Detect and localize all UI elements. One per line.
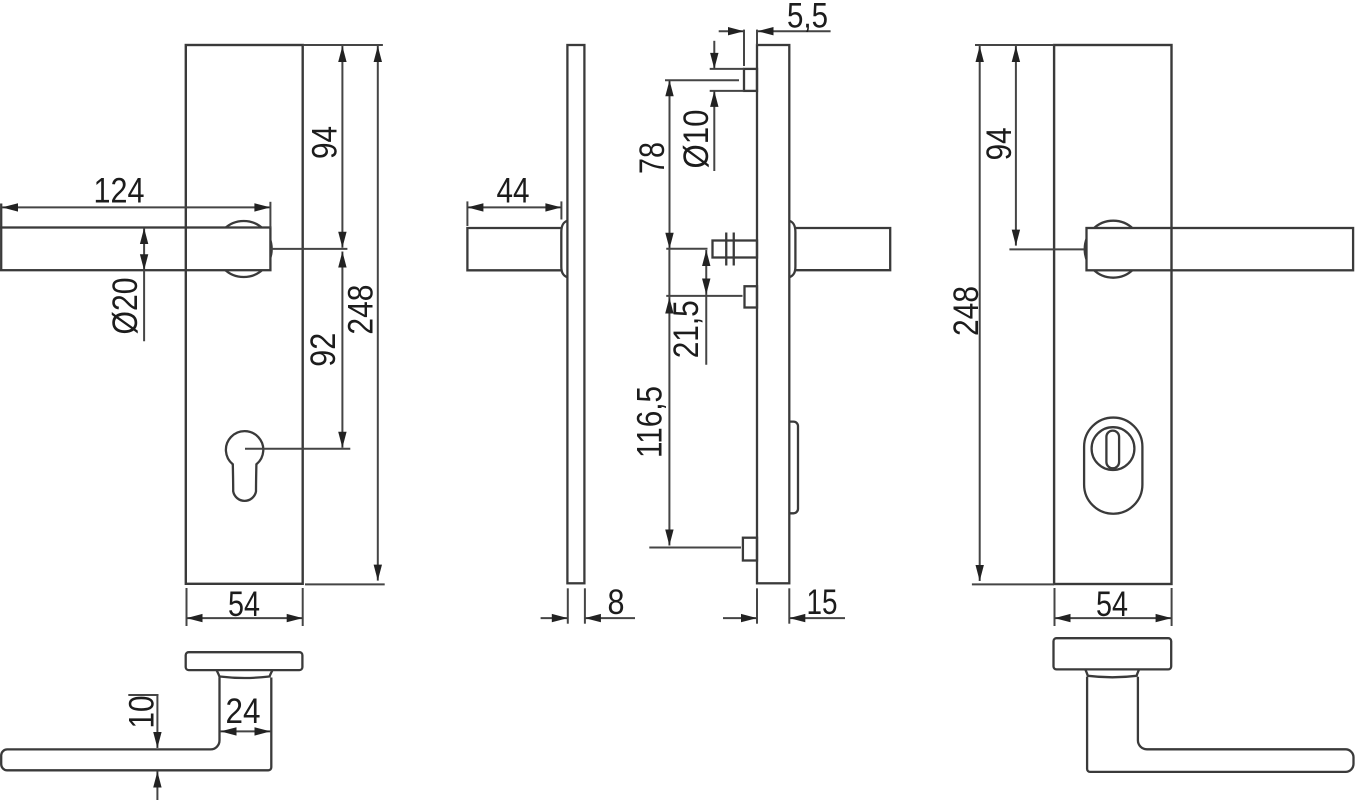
dimension 94 line (view4) [1015, 46, 1017, 246]
centerline of keyhole [245, 448, 350, 450]
long plate outline [186, 45, 303, 584]
lever neck side view [467, 228, 561, 270]
lower screw boss tick [649, 547, 741, 549]
svg-text:8: 8 [608, 583, 625, 622]
leader line under Ø20 [143, 270, 145, 341]
cylinder core circle [1092, 427, 1135, 470]
44 extension lines [466, 201, 468, 226]
54 extension lines (view1 bottom) [186, 588, 188, 626]
dimension 78 line [669, 80, 671, 249]
svg-text:21,5: 21,5 [667, 300, 706, 358]
svg-text:54: 54 [1096, 585, 1128, 624]
top extension line [303, 44, 383, 46]
svg-text:78: 78 [633, 142, 672, 174]
svg-text:248: 248 [341, 285, 380, 335]
svg-text:Ø20: Ø20 [106, 278, 145, 335]
5,5 extension lines [743, 30, 745, 66]
svg-text:44: 44 [497, 172, 530, 211]
dimension 5,5 arrows [719, 30, 744, 32]
long plate outline (inside) [1054, 45, 1171, 584]
dimension 248 line [377, 46, 379, 581]
centerline of lever (view4) [1009, 248, 1084, 250]
svg-text:248: 248 [947, 286, 986, 336]
svg-text:94: 94 [980, 127, 1019, 160]
dimension 8 arrows [541, 617, 568, 619]
dimension 10 upper arrow [156, 695, 158, 748]
dimension 94 line [341, 46, 343, 248]
neck collar bottom line [220, 677, 270, 679]
dimension 24 arrows [221, 730, 271, 732]
dimension Ø20 arrows [143, 228, 145, 270]
lever neck side view (right) [795, 228, 890, 270]
svg-text:94: 94 [306, 126, 345, 159]
10 dim shelf line [128, 694, 158, 696]
15 extension lines [756, 588, 758, 623]
svg-text:124: 124 [94, 172, 145, 211]
dimension 116,5 line [668, 249, 670, 546]
lever handle bar (front view), covers circle middle [0, 228, 270, 271]
bottom extension line (view4) [972, 583, 1054, 585]
screw axis tick [665, 79, 739, 81]
neck collar bottom line (right view) [1088, 676, 1136, 678]
dimension 54 line (view1) [187, 617, 303, 619]
spindle axis tick [666, 248, 707, 250]
upper fixing screw boss [745, 286, 758, 307]
dimension 248 line (view4) [979, 46, 981, 581]
oval security cylinder cover [1084, 418, 1142, 514]
oval cylinder cover, side view [789, 422, 798, 514]
security plate (15mm) side view [757, 45, 789, 583]
neck collar taper left (right view) [1085, 670, 1088, 677]
lever handle bar (front view, inside) [1087, 228, 1354, 270]
lever bar left end line [0, 204, 2, 271]
dimension 10 lower arrow [156, 772, 158, 800]
lower fixing screw boss [743, 538, 757, 561]
rose slab, bottom view [186, 652, 303, 670]
cylinder key slot [1106, 431, 1119, 469]
svg-text:116,5: 116,5 [631, 386, 670, 458]
bottom extension line [305, 583, 385, 585]
rose circle (lever bearing) [216, 221, 272, 277]
neck collar taper right (right view) [1136, 670, 1139, 677]
dimension Ø10 arrows [713, 41, 715, 69]
dimension 44 line [467, 206, 561, 208]
dimension 15 arrows [723, 617, 757, 619]
svg-text:24: 24 [226, 692, 261, 731]
54 extension lines (view4) [1054, 588, 1056, 626]
top extension line (view4) [975, 44, 1054, 46]
dimension 21,5 arrows [705, 250, 707, 365]
svg-text:92: 92 [304, 333, 343, 367]
svg-text:10: 10 [123, 696, 162, 729]
lever L-profile outline (bottom view, left) [1, 678, 271, 771]
top fixing screw, side [744, 69, 757, 91]
svg-text:15: 15 [807, 583, 838, 622]
spindle, side view [713, 241, 758, 258]
neck collar taper right [269, 670, 272, 677]
screw bottom edge extended [710, 90, 744, 92]
dimension 124 line [2, 206, 270, 208]
neck collar taper left [217, 670, 220, 677]
euro profile cylinder keyhole [226, 431, 263, 501]
dimension 54 line (view4) [1055, 617, 1172, 619]
rose circle (lever bearing, inside) [1085, 221, 1142, 278]
svg-text:Ø10: Ø10 [677, 110, 716, 169]
upper screw boss tick [666, 295, 742, 297]
lever L-profile outline (bottom view, right) [1087, 677, 1353, 772]
dimension 92 line [341, 252, 343, 448]
svg-text:54: 54 [228, 585, 260, 624]
centerline of lever [270, 248, 347, 250]
extension line right of 124 [269, 202, 271, 228]
thin plate (8mm) side view [567, 45, 584, 583]
screw top edge extended [710, 68, 744, 70]
spindle washer lines [725, 233, 727, 266]
svg-text:5,5: 5,5 [787, 0, 828, 36]
rose flange arc (side, right) [789, 221, 795, 278]
rose flange arc (side) [561, 221, 567, 278]
8 extension lines [567, 588, 569, 623]
rose slab, bottom view (inside) [1054, 638, 1172, 669]
